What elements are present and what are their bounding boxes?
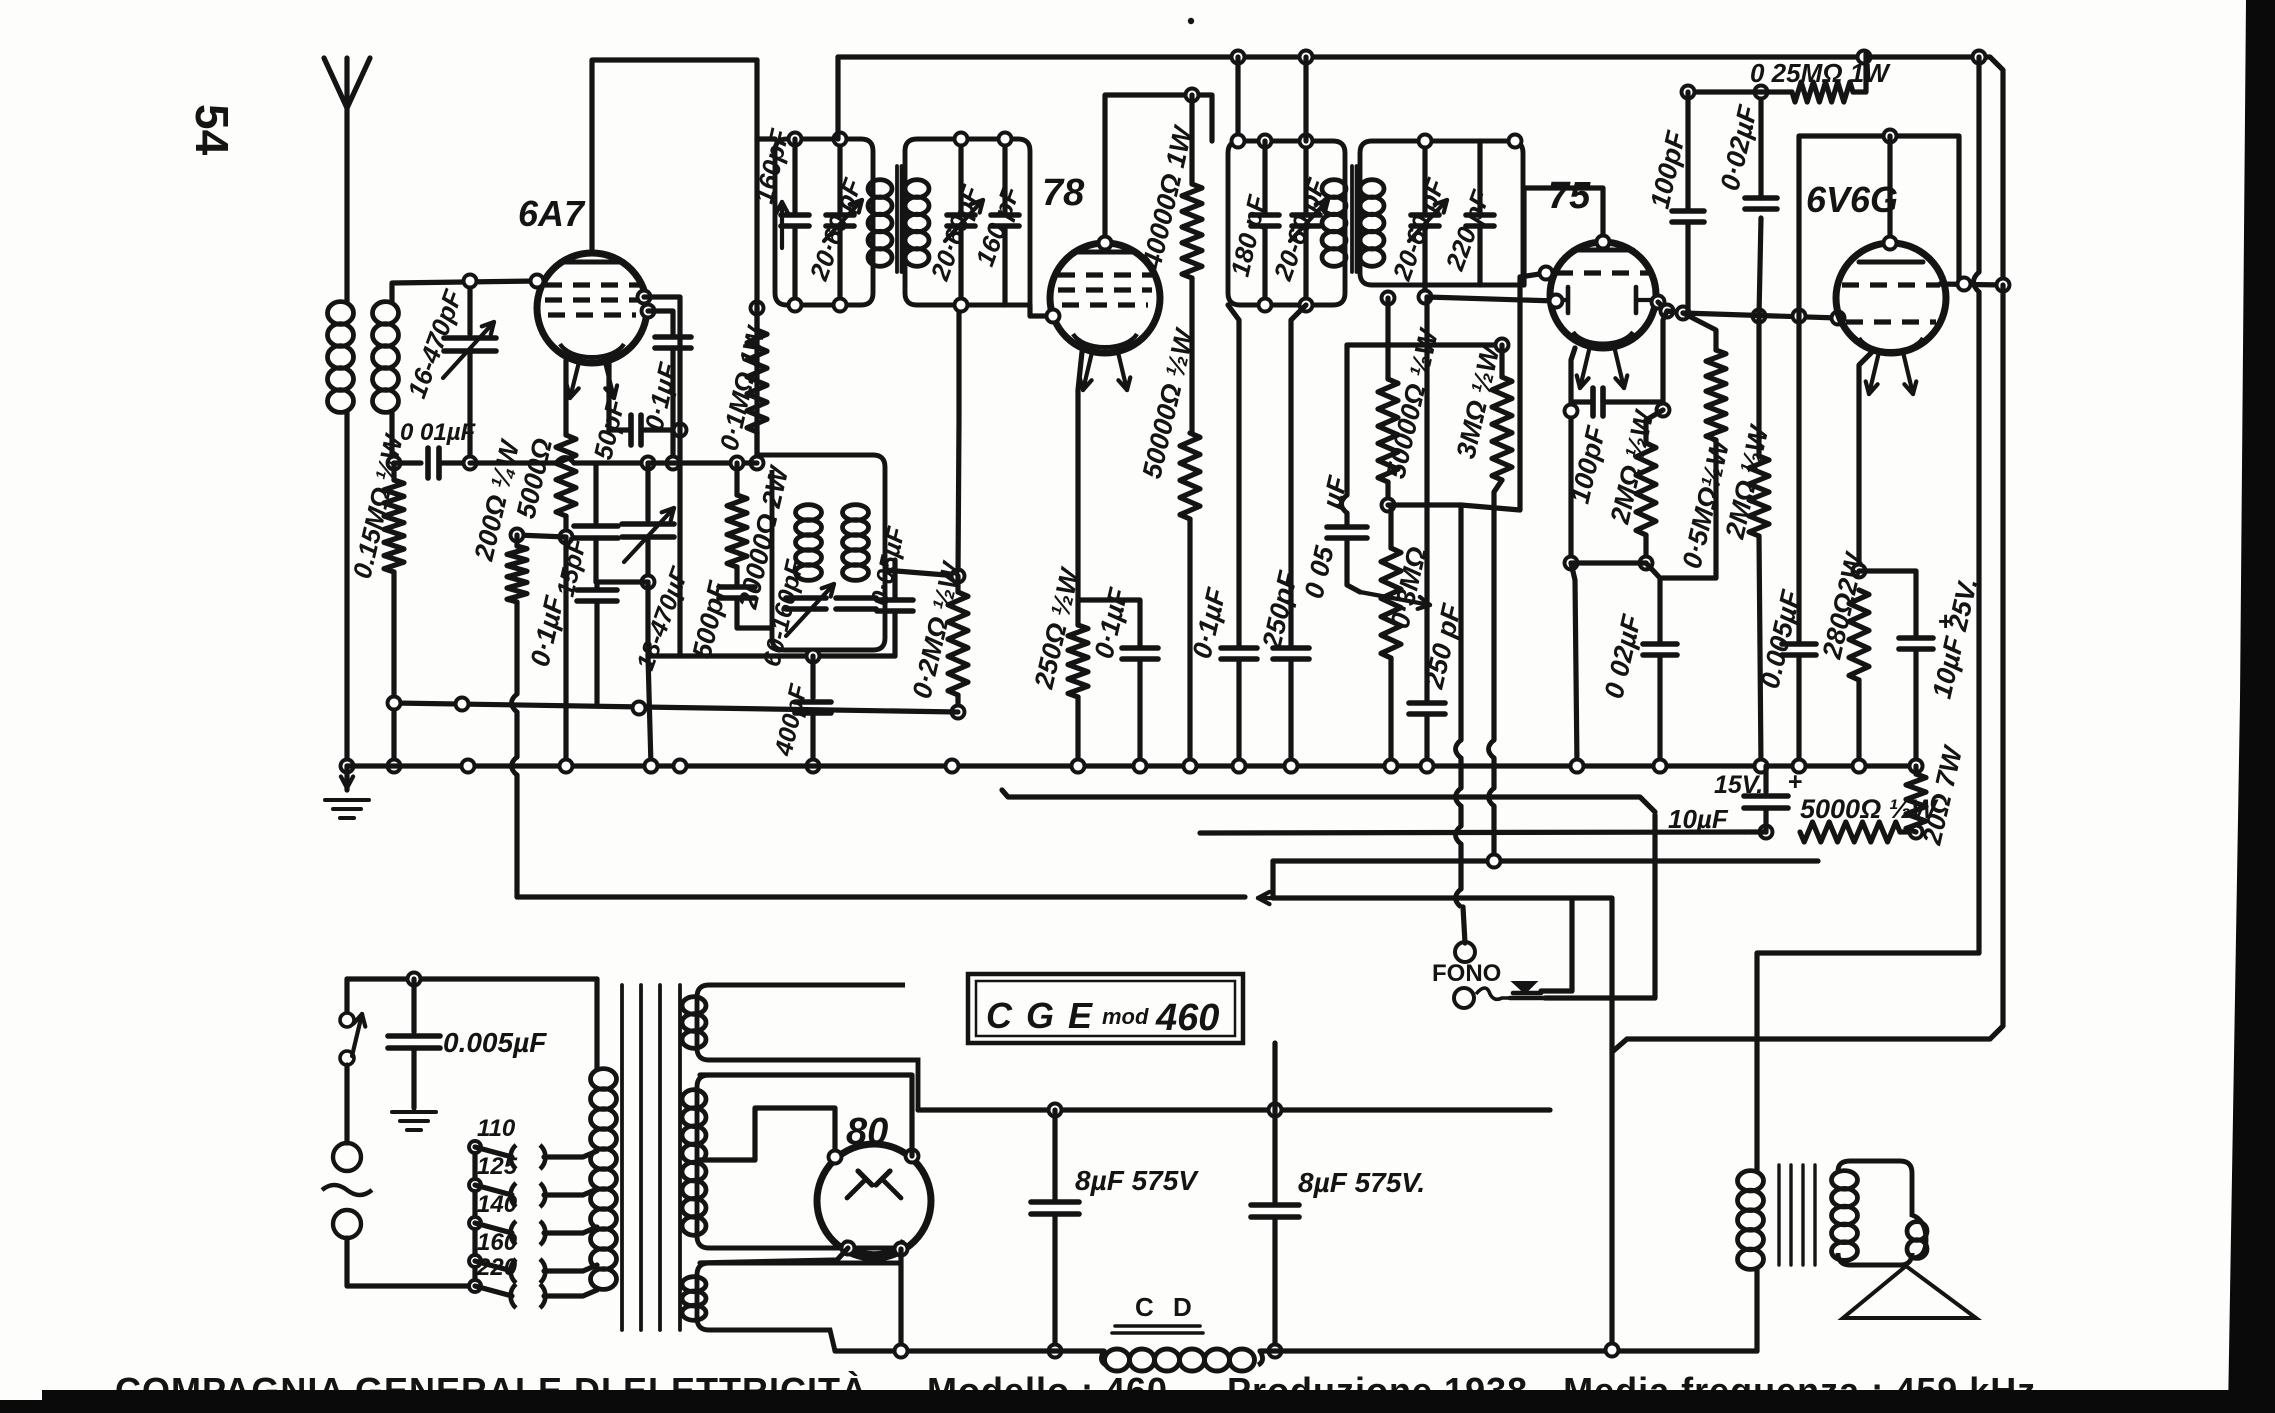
capacitor 160pF T1 [789, 133, 802, 146]
trimmer 20-60pF T2b [1422, 141, 1427, 212]
bus 5 [1273, 858, 1818, 863]
mains switch [344, 979, 349, 1012]
T1 secondary coil [905, 180, 929, 198]
FONO switch lever [1476, 988, 1513, 999]
svg-text:0.005µF: 0.005µF [443, 1027, 547, 1058]
wire 6V6G cathode [1859, 350, 1874, 571]
capacitor 500pF [719, 584, 755, 590]
top supply bus [838, 57, 2003, 285]
78 heater arrows [1083, 348, 1093, 390]
HV secondary top [697, 985, 918, 1110]
capacitor 0.05uF [1344, 345, 1349, 495]
svg-text:0 01µF: 0 01µF [400, 419, 477, 446]
svg-text:54: 54 [186, 104, 238, 156]
main ground bus [347, 763, 1916, 768]
resistor 0.1M ohm 1W [751, 302, 764, 315]
HV secondary main [697, 1075, 900, 1248]
resistor 2M ohm 1/2W [1646, 410, 1663, 443]
80 diode plates [847, 1179, 866, 1198]
output transformer core [1777, 1165, 1780, 1265]
trimmer 20-60pF T2a [1303, 141, 1308, 212]
capacitor 0.1uF 78 cathode [1078, 600, 1140, 645]
scan edge strip [2228, 0, 2275, 1413]
resistor 5000 ohm [556, 435, 576, 516]
resistor 0.5M ohm 1/2W [1683, 313, 1716, 350]
capacitor 220pF [1477, 141, 1482, 212]
75 diode plates [1566, 287, 1571, 313]
trimmer 20-60pF T1a [837, 139, 842, 212]
bus 6 phono [1258, 896, 1275, 900]
capacitor 0.005uF tone [1796, 316, 1801, 641]
mains plug terminals [333, 1143, 361, 1171]
label box CGE mod 460 [968, 974, 1243, 1043]
capacitor 10uF 15V bias [1763, 766, 1768, 792]
voltage taps [472, 1147, 477, 1286]
wiper arrow [1347, 539, 1360, 592]
resistor 20000 ohm 2W [731, 457, 744, 470]
variable capacitor 18-470pF [642, 457, 655, 470]
resistor 3M ohm 1/2W [1347, 342, 1502, 347]
wire 80 plate left [700, 1248, 848, 1263]
capacitor 0.005uF line [347, 976, 597, 981]
resistor 2M ohm 1/2W grid [1753, 310, 1766, 323]
wire bus to T2 [1235, 57, 1240, 141]
output transformer secondary [1832, 1171, 1858, 1190]
T2 primary coil [1322, 180, 1346, 198]
6V6G heater arrows [1869, 352, 1879, 394]
wire to mains switch [514, 602, 519, 694]
antenna coil L1 primary [328, 302, 354, 325]
capacitor 250pF [1291, 305, 1306, 645]
capacitor 0.1uF osc [648, 311, 673, 334]
capacitor 0.01uF [394, 460, 421, 465]
svg-text:75: 75 [1548, 175, 1591, 217]
capacitor 100pF plate [1685, 92, 1690, 208]
resistor 0.15M ohm 1/2W [388, 457, 401, 470]
resistor 40000 ohm 1W [1186, 89, 1199, 102]
svg-text:FONO: FONO [1432, 960, 1501, 987]
6A7 heater arrows [570, 358, 580, 398]
T2 core [1350, 166, 1354, 272]
wire 80 cathode B+ [700, 1075, 912, 1156]
capacitor 0.1uF [594, 582, 599, 588]
resistor 250 ohm 1/2W [1078, 352, 1082, 625]
T1 core [895, 166, 899, 272]
oscillator coil [759, 455, 885, 650]
speaker voice coil can [1838, 1161, 1926, 1265]
wire 6A7 cathode [563, 360, 568, 435]
svg-text:15V.: 15V. [1714, 771, 1763, 799]
bus 4 [1200, 832, 1745, 833]
capacitor 10uF 25V [1859, 571, 1916, 635]
svg-text:C G E: C G E [986, 995, 1094, 1036]
capacitor 0.1uF T2 [1228, 305, 1239, 645]
svg-text:0 25MΩ 1W: 0 25MΩ 1W [1750, 58, 1891, 88]
75 heater arrows [1580, 346, 1590, 388]
potentiometer 0.3M ohm [1388, 505, 1393, 548]
wire grid 75 [1461, 273, 1546, 510]
trimmer 20-60pF T1b [958, 139, 963, 212]
output transformer primary [1738, 1171, 1764, 1191]
wire 8uF b to CGE box [1272, 1043, 1277, 1110]
wire contact to heater bus [1545, 815, 1655, 998]
svg-text:78: 78 [1042, 172, 1085, 214]
wire grid T1 to 78 [1030, 305, 1053, 316]
bottom rail [835, 1348, 1104, 1353]
resistor 20 ohm 7W [1913, 766, 1918, 774]
capacitor 400pF [810, 656, 815, 698]
capacitor 15pF [593, 463, 598, 522]
svg-text:+: + [1788, 768, 1803, 796]
trimmer 60-160pF [786, 595, 826, 601]
svg-text:110: 110 [477, 1115, 516, 1142]
resistor 0.2M ohm 1/2W [885, 570, 958, 576]
capacitor 8uF 575V b [1272, 1110, 1277, 1202]
6V6G grid frame [1799, 136, 1959, 316]
variable capacitor 16-470pF [467, 281, 472, 334]
IF transformer T1 can [775, 139, 873, 305]
svg-text:8µF 575V: 8µF 575V [1075, 1165, 1199, 1196]
wire screen to bus line [1940, 284, 2003, 285]
capacitor 0.02uF coupling [1759, 218, 1761, 316]
capacitor 8uF 575V a [1052, 1110, 1057, 1199]
T2 secondary coil [1360, 180, 1384, 198]
resistor 50000 ohm 1/2W diode load [1382, 292, 1395, 305]
IF transformer T2 can [1228, 141, 1345, 305]
antenna [324, 58, 347, 302]
wire diode load to 75 grid [1388, 502, 1461, 507]
svg-text:6V6G: 6V6G [1806, 179, 1898, 220]
B+ rail [1049, 1104, 1062, 1117]
wire 75 diode node [1658, 302, 1667, 311]
wire contact riser [1541, 898, 1572, 991]
wire field coil return [1612, 285, 2003, 1052]
capacitor 250pF b [1424, 297, 1429, 700]
capacitor 180pF [1259, 135, 1272, 148]
wire 80 plate right [898, 1249, 903, 1351]
capacitor 0.02uF [1646, 563, 1660, 641]
ground [341, 760, 354, 773]
capacitor 160pF T1 sec [1002, 139, 1007, 212]
center tap wire [700, 1108, 835, 1160]
filament secondary [697, 1263, 900, 1351]
wire 75 cathode [1565, 557, 1578, 570]
wire plate feed [1976, 57, 1981, 272]
wire osc node [648, 653, 895, 658]
resistor 50000 ohm 1/2W screen [1180, 433, 1200, 519]
capacitor 0.05uF [892, 560, 897, 598]
antenna coil L2 secondary [373, 302, 399, 325]
speaker cone [1843, 1266, 1976, 1318]
resistor 280 ohm 2W [1849, 590, 1869, 680]
wire T1 sec bottom to osc grid [958, 305, 959, 576]
wire junction to bus [645, 582, 650, 656]
resistor 200 ohm 1/4W [517, 535, 566, 537]
svg-text:460: 460 [1155, 997, 1219, 1039]
FONO jack [1455, 942, 1475, 962]
capacitor 50pF [609, 427, 631, 432]
svg-text:+: + [1938, 606, 1953, 636]
svg-text:C D: C D [1135, 1292, 1198, 1322]
FONO switch contact [1513, 982, 1536, 993]
svg-text:10µF: 10µF [1668, 804, 1729, 834]
power transformer core [620, 985, 624, 1330]
scan speck [1188, 18, 1194, 24]
T1 primary coil [868, 180, 892, 198]
svg-text:mod: mod [1102, 1004, 1149, 1029]
wire grid line 6V6G [1683, 313, 1838, 318]
wire anode to T1 [754, 60, 759, 139]
capacitor 100pF [1571, 348, 1575, 563]
wire osc anode [644, 297, 680, 430]
bus 3 heater [1002, 790, 1655, 812]
svg-text:6A7: 6A7 [518, 193, 586, 234]
bus 2 [394, 703, 958, 712]
svg-text:8µF 575V.: 8µF 575V. [1298, 1167, 1425, 1198]
power transformer primary coil [594, 979, 599, 1069]
resistor 5000 ohm 1/2W bias [1800, 822, 1900, 842]
tap fuses [475, 1147, 512, 1157]
resistor 0.25M ohm 1W [1688, 89, 1792, 94]
wire diode line [1427, 297, 1556, 301]
